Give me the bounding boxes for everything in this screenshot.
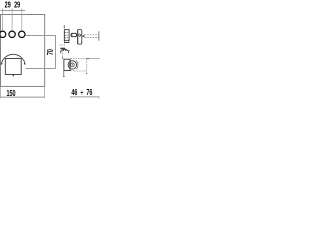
svg-text:46 ÷ 76: 46 ÷ 76 (71, 89, 92, 97)
svg-text:29: 29 (5, 1, 11, 9)
svg-text:150: 150 (6, 90, 15, 98)
svg-text:29: 29 (14, 1, 20, 9)
svg-text:70: 70 (47, 49, 55, 55)
